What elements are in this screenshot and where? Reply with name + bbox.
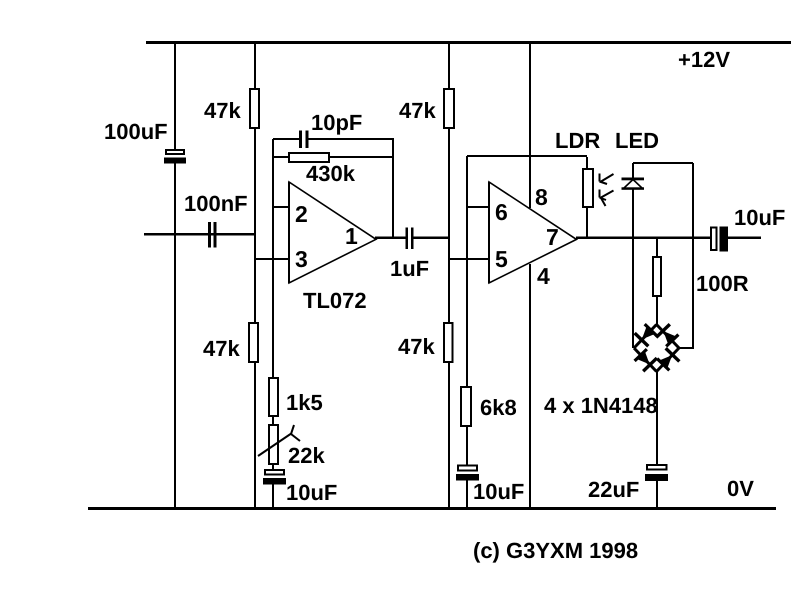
wire: U1B feedback top <box>467 155 587 157</box>
svg-text:100R: 100R <box>696 271 749 296</box>
wire: bias column 1 middle <box>254 129 256 322</box>
svg-text:7: 7 <box>546 224 559 250</box>
wire: pin5 wire <box>450 258 489 260</box>
diode bridge 4 x 1N4148 <box>633 322 681 372</box>
+12V supply rail <box>146 41 791 44</box>
svg-text:8: 8 <box>535 184 548 210</box>
wire: left branch upper (rail to C1) <box>174 43 176 149</box>
svg-text:10uF: 10uF <box>286 480 337 505</box>
svg-text:6k8: 6k8 <box>480 395 517 420</box>
svg-text:22uF: 22uF <box>588 477 639 502</box>
resistor R4 1k5 <box>269 378 278 416</box>
resistor R6 47k <box>444 89 454 128</box>
wire: 430k branch right <box>330 156 392 158</box>
wire: feedback column <box>272 139 274 377</box>
resistor R9 47k <box>444 323 453 362</box>
wire: bias column 2 upper <box>448 43 450 88</box>
resistor R3 430k <box>289 153 329 162</box>
wire: LED loop right drop <box>678 163 694 349</box>
svg-text:47k: 47k <box>398 334 435 359</box>
0V ground rail <box>88 507 776 510</box>
svg-text:10pF: 10pF <box>311 110 362 135</box>
svg-text:(c) G3YXM 1998: (c) G3YXM 1998 <box>473 538 638 563</box>
capacitor C7 22uF <box>645 465 668 481</box>
wire: 22k to C5 <box>272 465 274 469</box>
wire: left branch lower (C1 to 0V) <box>174 164 176 508</box>
svg-text:47k: 47k <box>203 336 240 361</box>
wire: pin6 column <box>466 156 468 386</box>
wire: U1B output <box>576 237 761 240</box>
capacitor C1 100uF <box>164 150 186 164</box>
capacitor C4 1uF <box>406 228 414 250</box>
svg-text:+12V: +12V <box>678 47 730 72</box>
resistor R1 47k <box>250 89 259 128</box>
variable resistor R5 22k <box>258 425 300 464</box>
svg-text:10uF: 10uF <box>473 479 524 504</box>
wire: 6k8 to C6 <box>466 427 468 465</box>
wire: bias column 1 upper <box>254 43 256 88</box>
svg-text:5: 5 <box>495 246 508 272</box>
wire: pin4 ground drop <box>529 264 531 507</box>
svg-text:1k5: 1k5 <box>286 390 323 415</box>
wire: bridge to C7 <box>656 371 658 464</box>
capacitor C3 10pF <box>299 131 309 149</box>
op-amp U1A <box>288 182 376 283</box>
LDR <box>583 157 614 239</box>
capacitor C8 10uF output <box>711 227 728 252</box>
wire: pin2 stub <box>274 206 289 208</box>
wire: bias column 2 lower <box>448 129 450 507</box>
svg-text:4 x 1N4148: 4 x 1N4148 <box>544 393 658 418</box>
wire: C6 to ground rail <box>466 481 468 508</box>
resistor R2 47k <box>249 323 258 362</box>
wire: pin3 input wire <box>256 258 289 260</box>
resistor R7 6k8 <box>461 387 471 426</box>
wire: pin8 supply drop <box>529 43 531 208</box>
svg-text:0V: 0V <box>727 476 754 501</box>
svg-text:10uF: 10uF <box>734 205 785 230</box>
wire: LED top wire <box>633 162 693 164</box>
capacitor C2 100nF <box>208 222 217 248</box>
wire: feedback top branch <box>273 138 394 140</box>
capacitor C5 10uF <box>263 470 286 485</box>
wire: C5 to ground rail <box>272 485 274 508</box>
wire: audio input <box>144 233 255 236</box>
svg-text:3: 3 <box>295 246 308 272</box>
svg-text:100uF: 100uF <box>104 119 168 144</box>
svg-text:LDR: LDR <box>555 128 600 153</box>
svg-text:22k: 22k <box>288 443 325 468</box>
op-amp U1B <box>488 182 577 283</box>
wire: C7 to ground rail <box>656 481 658 507</box>
svg-text:4: 4 <box>537 263 550 289</box>
LED D1 <box>622 163 645 348</box>
wire: bias column 1 lower <box>254 363 256 507</box>
resistor R8 100R <box>653 237 661 325</box>
wire: U1A output <box>375 237 450 240</box>
wire: 1k5 to 22k <box>272 417 274 424</box>
capacitor C6 10uF <box>456 466 479 481</box>
svg-text:100nF: 100nF <box>184 191 248 216</box>
wire: feedback right drop <box>392 139 394 237</box>
wire: 430k branch left <box>274 156 288 158</box>
svg-text:47k: 47k <box>399 98 436 123</box>
wire: pin6 stub <box>468 206 489 208</box>
svg-text:LED: LED <box>615 128 659 153</box>
svg-text:1uF: 1uF <box>390 256 429 281</box>
svg-text:6: 6 <box>495 199 508 225</box>
svg-text:TL072: TL072 <box>303 288 367 313</box>
svg-text:47k: 47k <box>204 98 241 123</box>
svg-text:2: 2 <box>295 201 308 227</box>
svg-text:1: 1 <box>345 223 358 249</box>
svg-text:430k: 430k <box>306 161 356 186</box>
